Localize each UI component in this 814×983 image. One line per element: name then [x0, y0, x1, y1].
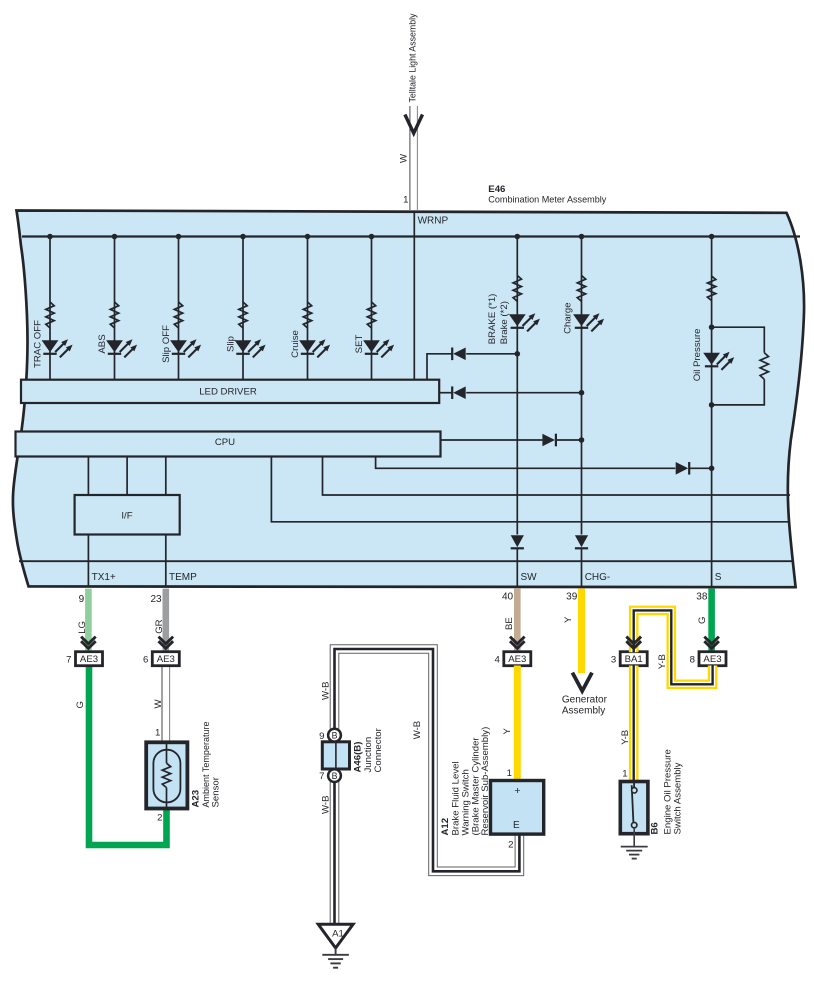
svg-text:38: 38: [696, 592, 708, 603]
svg-text:LG: LG: [77, 621, 88, 634]
svg-text:Cruise: Cruise: [290, 330, 301, 358]
svg-text:4: 4: [494, 654, 500, 665]
svg-text:7: 7: [66, 654, 71, 665]
svg-text:G: G: [75, 701, 86, 708]
svg-text:7: 7: [319, 771, 324, 782]
svg-text:AE3: AE3: [703, 654, 721, 665]
svg-text:B6: B6: [649, 822, 660, 834]
svg-text:Assembly: Assembly: [562, 705, 605, 716]
svg-text:BA1: BA1: [625, 654, 643, 665]
svg-text:AE3: AE3: [508, 654, 526, 665]
svg-text:ABS: ABS: [97, 334, 108, 353]
svg-text:S: S: [715, 572, 722, 583]
svg-text:W-B: W-B: [412, 721, 423, 739]
svg-text:Brake (*2): Brake (*2): [499, 301, 510, 344]
svg-text:Y-B: Y-B: [657, 654, 668, 669]
svg-text:TEMP: TEMP: [169, 572, 197, 583]
svg-text:E46: E46: [488, 184, 505, 195]
svg-text:9: 9: [79, 594, 85, 605]
svg-text:BRAKE (*1): BRAKE (*1): [487, 294, 498, 345]
svg-text:Y-B: Y-B: [620, 730, 631, 745]
svg-text:I/F: I/F: [121, 510, 132, 521]
svg-text:23: 23: [150, 594, 162, 605]
svg-text:CPU: CPU: [215, 437, 235, 448]
svg-text:A23: A23: [190, 790, 201, 808]
svg-text:6: 6: [143, 654, 148, 665]
svg-text:TX1+: TX1+: [92, 572, 116, 583]
svg-text:CHG-: CHG-: [585, 572, 611, 583]
svg-text:GR: GR: [154, 619, 165, 633]
svg-text:Combination Meter Assembly: Combination Meter Assembly: [488, 194, 606, 205]
svg-text:1: 1: [622, 769, 627, 780]
svg-text:40: 40: [502, 592, 514, 603]
svg-text:A1: A1: [332, 928, 344, 939]
svg-text:BE: BE: [504, 617, 515, 630]
svg-text:AE3: AE3: [80, 654, 98, 665]
svg-text:W-B: W-B: [320, 796, 331, 814]
svg-text:W: W: [153, 699, 164, 709]
svg-text:Slip OFF: Slip OFF: [161, 325, 172, 363]
svg-text:1: 1: [155, 728, 160, 739]
svg-text:Charge: Charge: [562, 302, 573, 333]
svg-text:Y: Y: [502, 728, 513, 735]
svg-text:SET: SET: [354, 335, 365, 354]
svg-text:Telltale Light Assembly: Telltale Light Assembly: [408, 13, 419, 102]
svg-text:2: 2: [157, 812, 162, 823]
svg-text:AE3: AE3: [157, 654, 175, 665]
svg-text:Switch Assembly: Switch Assembly: [673, 762, 684, 834]
svg-text:Generator: Generator: [562, 694, 608, 705]
svg-text:1: 1: [403, 195, 408, 206]
svg-text:9: 9: [319, 731, 324, 742]
svg-text:8: 8: [690, 654, 695, 665]
svg-text:SW: SW: [521, 572, 538, 583]
svg-text:2: 2: [508, 839, 513, 850]
svg-text:A46(B): A46(B): [352, 742, 363, 773]
svg-text:B: B: [332, 731, 338, 741]
svg-text:3: 3: [611, 654, 616, 665]
svg-text:A12: A12: [440, 818, 451, 836]
svg-text:Oil Pressure: Oil Pressure: [692, 329, 703, 382]
svg-text:TRAC OFF: TRAC OFF: [32, 320, 43, 368]
svg-text:Sensor: Sensor: [211, 776, 222, 807]
svg-text:39: 39: [566, 592, 578, 603]
svg-text:W-B: W-B: [320, 682, 331, 700]
svg-text:B: B: [332, 771, 338, 781]
svg-text:Slip: Slip: [225, 336, 236, 352]
svg-text:Y: Y: [563, 616, 574, 623]
svg-text:WRNP: WRNP: [418, 216, 449, 227]
svg-text:Connector: Connector: [373, 727, 384, 772]
svg-text:Reservoir Sub-Assembly): Reservoir Sub-Assembly): [480, 727, 491, 836]
svg-text:+: +: [514, 785, 520, 797]
svg-text:W: W: [399, 153, 410, 163]
svg-text:1: 1: [507, 768, 512, 779]
svg-text:E: E: [513, 820, 520, 831]
svg-text:G: G: [697, 617, 708, 624]
svg-text:LED DRIVER: LED DRIVER: [199, 387, 257, 398]
